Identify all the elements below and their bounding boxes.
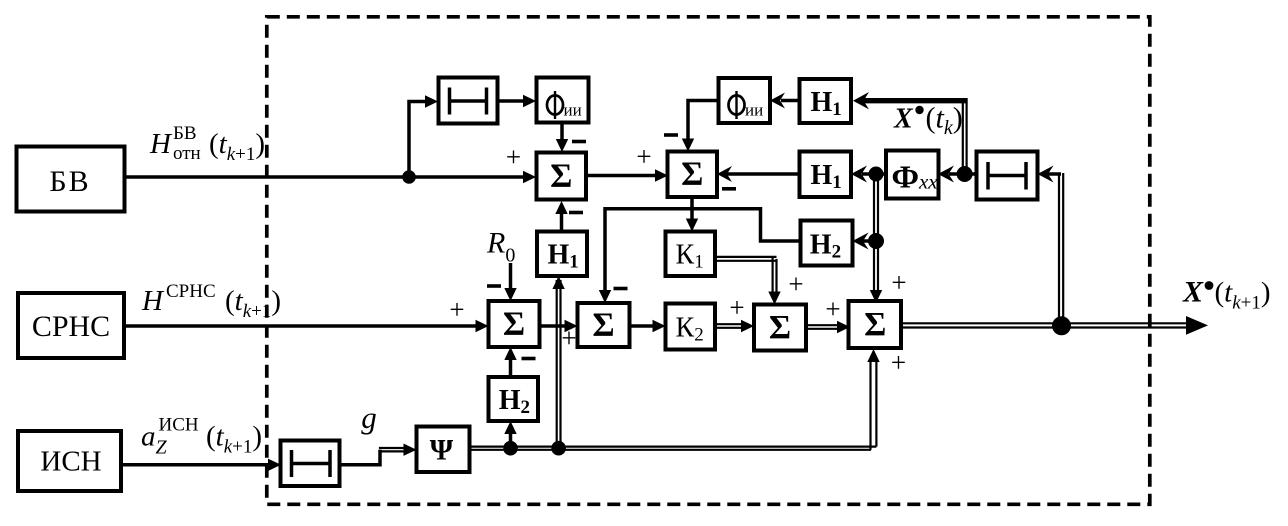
node on БВ wire xyxy=(402,170,416,184)
block H1a (below S1) xyxy=(537,232,587,277)
summer S1 xyxy=(537,153,587,200)
svg-text:Σ: Σ xyxy=(550,157,572,194)
svg-text:+: + xyxy=(636,142,651,172)
wire S1 to S2, plus xyxy=(586,174,657,178)
wire H1mid to S2 right, minus xyxy=(726,172,800,176)
wire double output feedback up xyxy=(1058,173,1060,325)
block Psi xyxy=(417,427,470,473)
wire X(tk) into H1top (double) xyxy=(862,98,967,103)
summer Sm1 (СРНС row) xyxy=(489,301,540,347)
wire double from Fxx node down to S4 top, plus xyxy=(873,174,875,291)
svg-text:ИСН: ИСН xyxy=(40,446,101,478)
wire S2 down to K1 xyxy=(690,197,694,221)
wire D1 to phi1 xyxy=(498,99,527,103)
svg-text:Σ: Σ xyxy=(681,156,703,193)
node to H1a xyxy=(551,441,566,456)
svg-text:X: X xyxy=(1182,276,1204,309)
wire S4 double output xyxy=(902,322,1194,324)
wire H2a up to Sm1, minus xyxy=(509,358,513,377)
wire phi2 to S2 top, minus xyxy=(688,101,719,142)
svg-text:ии: ии xyxy=(745,101,763,120)
svg-text:+: + xyxy=(561,323,576,353)
wire S3 double to S4, plus xyxy=(806,324,841,326)
wire R0 down to Sm1, minus xyxy=(509,263,513,292)
svg-text:+: + xyxy=(891,348,906,378)
svg-text:+: + xyxy=(729,293,744,323)
svg-text:отн: отн xyxy=(173,143,201,164)
summer S3 xyxy=(754,305,806,351)
summer S4 xyxy=(849,301,902,348)
svg-text:Ψ: Ψ xyxy=(430,434,454,467)
node left of Fxx xyxy=(869,167,884,182)
svg-text:ии: ии xyxy=(564,101,582,120)
delay block D3 (bottom) xyxy=(281,441,340,487)
block H2 right xyxy=(801,221,853,266)
wire H1a up to S1, minus xyxy=(560,211,564,232)
svg-text:ИСН: ИСН xyxy=(159,415,199,436)
block H1 top xyxy=(800,79,852,123)
svg-text:+: + xyxy=(788,269,803,299)
wire K2 double to S3, plus xyxy=(715,323,745,325)
svg-text:Σ: Σ xyxy=(592,306,614,343)
svg-text:СРНС: СРНС xyxy=(32,310,110,343)
block H1 mid xyxy=(800,152,852,198)
wire Sm2 to K2 xyxy=(630,324,657,328)
block H2a (below Sm1) xyxy=(489,377,539,421)
block K1 xyxy=(666,232,716,277)
wire double node up to H1a xyxy=(556,280,558,448)
wire Sm1 to Sm2, plus below xyxy=(540,324,569,328)
summer Sm2 xyxy=(578,303,630,347)
dashed filter boundary frame xyxy=(267,17,1150,505)
wire СРНС to Sm1, plus xyxy=(123,324,479,328)
svg-text:Σ: Σ xyxy=(503,305,525,342)
delay block D1 (top) xyxy=(439,78,498,124)
svg-text:БВ: БВ xyxy=(49,165,90,198)
wire node to H2right xyxy=(863,239,869,243)
svg-text:+: + xyxy=(449,295,464,325)
svg-text:+: + xyxy=(825,294,840,324)
svg-text:Σ: Σ xyxy=(769,309,791,346)
node to H2a xyxy=(503,441,518,456)
svg-text:H: H xyxy=(141,285,165,317)
node between D2 and Fxx xyxy=(957,166,973,182)
wire Fxx out to H1mid xyxy=(862,172,887,176)
wire БВ to S1 xyxy=(124,175,524,179)
wire H1top to phi2 xyxy=(781,99,800,103)
svg-text:X: X xyxy=(893,104,914,135)
wire D3 to Psi, g label xyxy=(340,450,381,465)
svg-text:g: g xyxy=(361,400,377,435)
svg-text:+: + xyxy=(891,268,906,298)
block phi_ii 2 xyxy=(719,78,771,123)
wire node up to H2a xyxy=(509,431,513,448)
wire phi1 down to S1, minus xyxy=(560,123,564,143)
wire feedback into D2 right xyxy=(1048,172,1061,176)
svg-text:БВ: БВ xyxy=(173,123,197,144)
block БВ xyxy=(17,147,125,212)
wire Psi double output to S4 bottom, plus xyxy=(470,446,877,448)
block СРНС xyxy=(18,293,124,358)
svg-text:СРНС: СРНС xyxy=(166,281,216,302)
block ИСН xyxy=(18,431,121,491)
delay block D2 (right) xyxy=(977,152,1038,200)
svg-text:+: + xyxy=(506,142,521,172)
block Phi_xx xyxy=(886,151,939,199)
wire vertical double from node to X line xyxy=(962,98,964,174)
svg-text:H: H xyxy=(149,128,173,160)
wire D2 out to Fxx xyxy=(949,172,977,176)
wire K1 double out to S3 top, plus xyxy=(715,256,777,258)
wire H2right loop to Sm2 top, minus xyxy=(605,209,801,292)
wire ИСН to D3 xyxy=(121,463,272,467)
wire node up to D1 xyxy=(409,102,427,178)
block K2 xyxy=(666,304,716,350)
node feeding H2right xyxy=(868,233,884,249)
output node xyxy=(1052,316,1071,335)
summer S2 xyxy=(668,152,718,198)
svg-text:Σ: Σ xyxy=(864,306,886,343)
block phi_ii 1 xyxy=(537,78,589,123)
